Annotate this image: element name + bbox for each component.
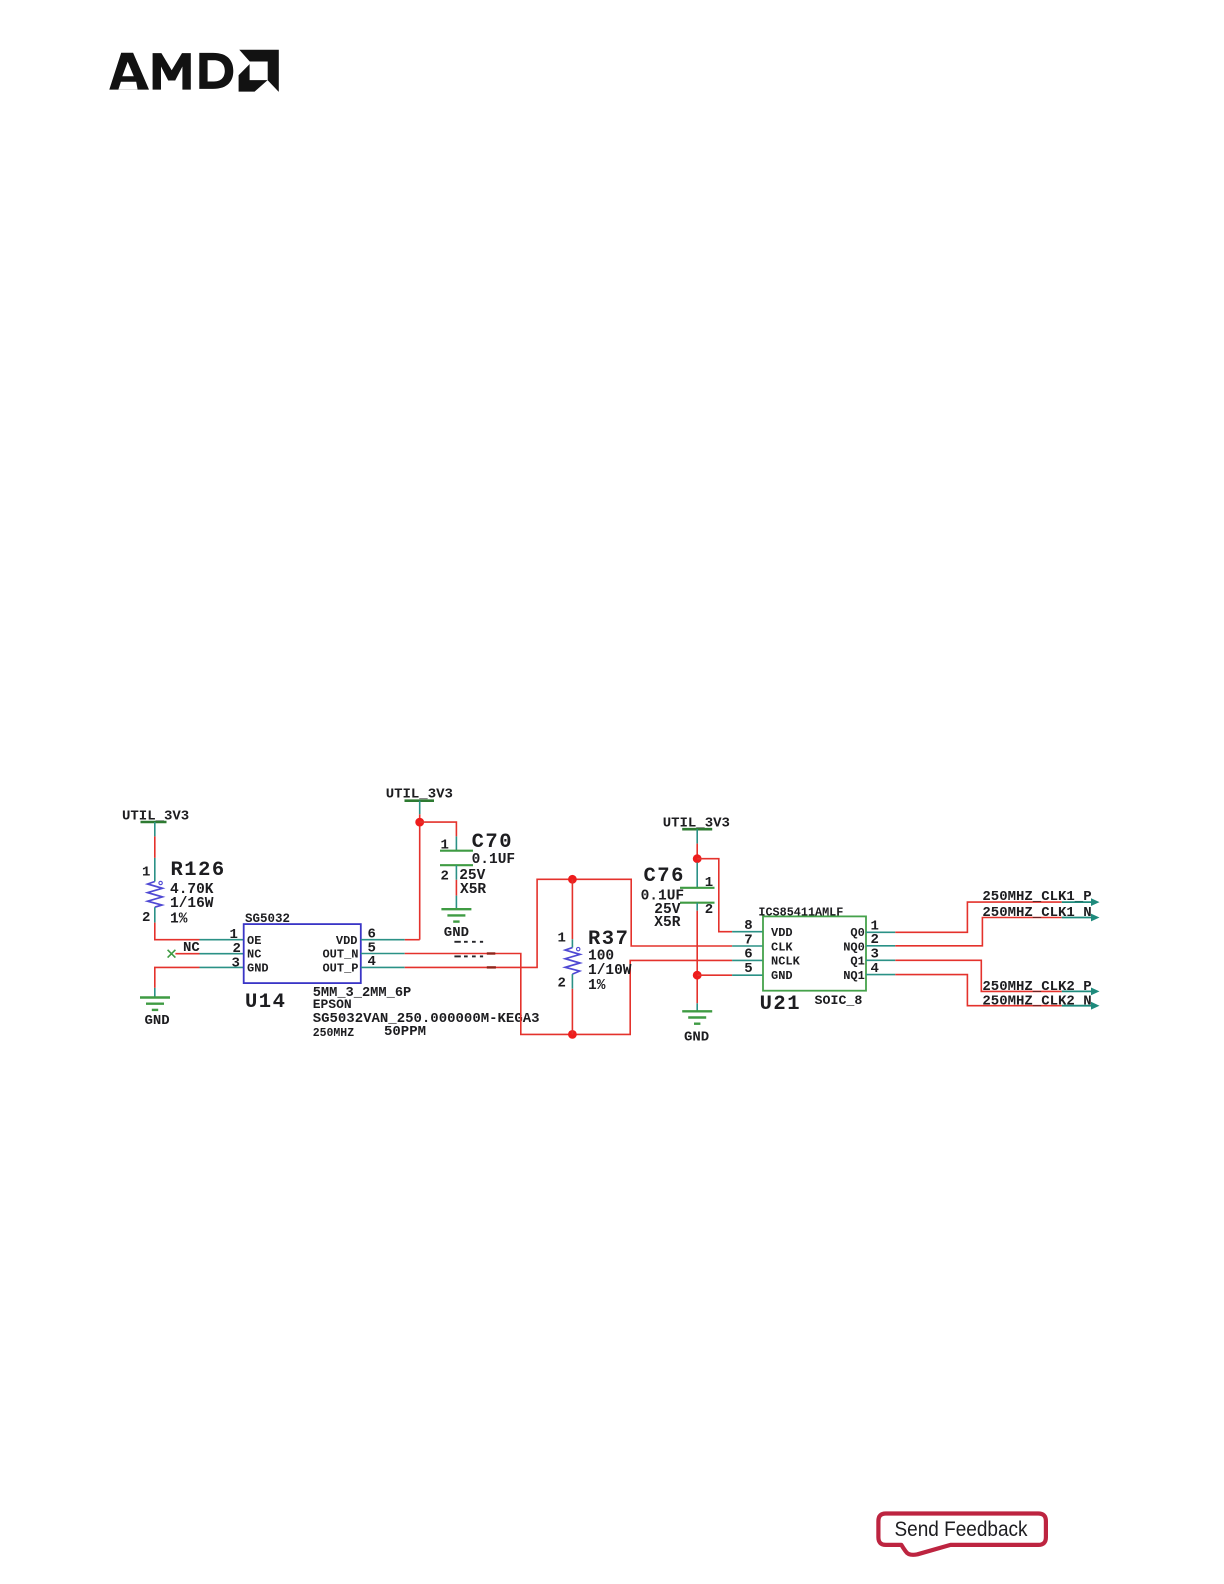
ground (left): [140, 998, 170, 1030]
svg-text:R126: R126: [171, 859, 226, 882]
wire UTIL_3V3 to R126 pin 1: [154, 836, 156, 858]
svg-text:OE: OE: [247, 934, 261, 948]
svg-text:Q0: Q0: [850, 926, 864, 940]
resistor R126: [142, 858, 226, 928]
wire NQ1 (pin 4): [866, 975, 1062, 1006]
svg-text:250MHZ_CLK2_N: 250MHZ_CLK2_N: [982, 993, 1091, 1009]
svg-text:GND: GND: [145, 1013, 170, 1029]
svg-text:SG5032: SG5032: [245, 912, 290, 926]
svg-text:2: 2: [705, 902, 713, 918]
Send Feedback button: [878, 1514, 1046, 1555]
svg-text:R37: R37: [588, 928, 629, 951]
oscillator U14: [244, 912, 540, 1040]
svg-text:C76: C76: [644, 865, 685, 888]
svg-text:250MHZ: 250MHZ: [313, 1027, 355, 1040]
clock buffer U21: [744, 905, 879, 1016]
svg-text:5: 5: [744, 961, 752, 977]
svg-text:GND: GND: [771, 969, 793, 983]
svg-text:Send Feedback: Send Feedback: [895, 1518, 1029, 1541]
svg-text:1/16W: 1/16W: [170, 896, 214, 912]
whiteout remnant dashes: [454, 942, 483, 957]
net arrow 250MHZ_CLK2_P: [982, 979, 1099, 995]
capacitor C70: [420, 822, 515, 909]
no-connect on U14 pin 2 (NC): [168, 940, 244, 958]
svg-text:2: 2: [142, 910, 150, 926]
AMD logo: [109, 50, 278, 92]
wire junction to U21 GND pin 5: [697, 974, 763, 976]
svg-text:250MHZ_CLK1_N: 250MHZ_CLK1_N: [982, 905, 1091, 921]
svg-text:NQ1: NQ1: [843, 969, 865, 983]
power symbol UTIL_3V3 (left): [122, 809, 189, 837]
svg-text:1: 1: [142, 864, 150, 880]
svg-text:VDD: VDD: [771, 926, 793, 940]
svg-text:U14: U14: [245, 991, 286, 1014]
junction C76 bottom / U21 GND: [693, 971, 702, 980]
wire NQ0 (pin 2): [866, 918, 1062, 946]
ground (C70): [441, 909, 471, 941]
wire Q0 (pin 1): [866, 902, 1062, 932]
svg-text:NC: NC: [247, 948, 261, 962]
svg-text:CLK: CLK: [771, 940, 793, 954]
ground (C76): [682, 1003, 712, 1045]
svg-text:SOIC_8: SOIC_8: [815, 993, 863, 1008]
svg-text:GND: GND: [684, 1029, 709, 1045]
svg-text:NQ0: NQ0: [843, 940, 865, 954]
junction at UTIL_3V3 / C70: [415, 818, 424, 827]
svg-text:100: 100: [588, 949, 614, 965]
power symbol UTIL_3V3 (center): [386, 787, 453, 815]
junction R37 top: [568, 875, 577, 884]
resistor R37: [558, 879, 632, 1034]
svg-text:1/10W: 1/10W: [588, 963, 632, 979]
svg-text:Q1: Q1: [850, 955, 864, 969]
net arrow 250MHZ_CLK2_N: [982, 993, 1099, 1009]
svg-text:GND: GND: [247, 962, 269, 976]
svg-text:2: 2: [233, 941, 241, 957]
svg-text:1: 1: [558, 931, 566, 947]
svg-text:EPSON: EPSON: [313, 997, 352, 1012]
net arrow 250MHZ_CLK1_P: [982, 889, 1099, 906]
power symbol UTIL_3V3 (right): [663, 815, 730, 843]
svg-text:3: 3: [232, 956, 240, 972]
svg-text:50PPM: 50PPM: [384, 1024, 426, 1040]
wire junction to U21 VDD pin 8: [697, 859, 763, 932]
svg-text:GND: GND: [444, 925, 469, 941]
wire OUT_P (pin 4) to R37/CLK: [361, 879, 763, 970]
wire Q1 (pin 3): [866, 960, 1062, 991]
svg-text:NCLK: NCLK: [771, 955, 801, 969]
svg-text:1%: 1%: [588, 978, 606, 994]
svg-text:U21: U21: [760, 993, 801, 1016]
svg-text:2: 2: [441, 868, 449, 884]
svg-text:2: 2: [558, 975, 566, 991]
junction R37 bottom: [568, 1030, 577, 1039]
svg-text:X5R: X5R: [654, 915, 680, 931]
wire UTIL_3V3 down to U14 VDD pin 6: [361, 814, 420, 942]
svg-text:0.1UF: 0.1UF: [472, 852, 516, 868]
wire OUT_N (pin 5) to R37/NCLK: [361, 940, 763, 1034]
svg-text:VDD: VDD: [336, 934, 358, 948]
svg-text:SG5032VAN_250.000000M-KEGA3: SG5032VAN_250.000000M-KEGA3: [313, 1011, 540, 1027]
svg-text:OUT_P: OUT_P: [322, 962, 358, 976]
wire UTIL_3V3 right down to junction: [696, 844, 698, 863]
svg-text:OUT_N: OUT_N: [322, 948, 358, 962]
svg-text:4: 4: [368, 954, 376, 970]
svg-text:ICS85411AMLF: ICS85411AMLF: [758, 905, 843, 919]
svg-text:C70: C70: [472, 831, 513, 854]
capacitor C76: [641, 863, 715, 1004]
svg-text:X5R: X5R: [460, 882, 486, 898]
junction C76 top: [693, 854, 702, 863]
wire U14 GND pin 3 to ground: [155, 956, 244, 998]
wire R126 pin 2 to U14 OE: [155, 923, 244, 944]
svg-text:1%: 1%: [170, 911, 188, 927]
net arrow 250MHZ_CLK1_N: [982, 905, 1099, 921]
